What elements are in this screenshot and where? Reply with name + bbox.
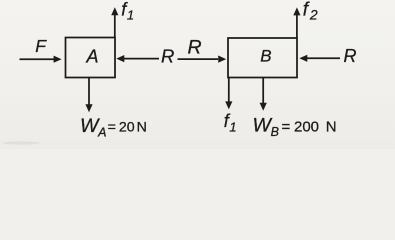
arrowhead R into A bbox=[116, 55, 124, 62]
svg-text:B: B bbox=[260, 47, 271, 66]
arrowhead WA down bbox=[85, 104, 92, 112]
svg-text:N: N bbox=[137, 120, 147, 136]
svg-text:=: = bbox=[108, 120, 116, 136]
arrowhead f1 up bbox=[111, 7, 118, 15]
wire: force R line into B left bbox=[178, 58, 219, 60]
arrowhead f2 up bbox=[293, 7, 300, 15]
svg-text:200: 200 bbox=[294, 118, 319, 135]
svg-text:20: 20 bbox=[119, 120, 135, 136]
arrowhead F bbox=[54, 56, 62, 63]
wire: force R line into B right bbox=[307, 57, 341, 59]
svg-text:A: A bbox=[86, 47, 99, 67]
svg-text:R: R bbox=[344, 46, 357, 66]
wire: force R line into A right bbox=[124, 58, 160, 60]
svg-text:F: F bbox=[35, 36, 47, 56]
arrowhead WB down bbox=[260, 103, 267, 111]
wire: weight WB down from B bbox=[262, 78, 264, 104]
scan smudge bottom-left bbox=[2, 141, 40, 144]
wire: force F line into A bbox=[20, 58, 55, 60]
svg-text:N: N bbox=[326, 118, 337, 135]
block A bbox=[66, 38, 116, 78]
arrowhead f1 down bbox=[225, 101, 232, 109]
arrowhead R into B left bbox=[218, 56, 226, 63]
svg-text:R: R bbox=[188, 37, 202, 59]
svg-text:=: = bbox=[282, 118, 291, 135]
arrowhead R into B right bbox=[299, 55, 307, 62]
block B bbox=[228, 38, 297, 78]
wire: force f1 up from A bbox=[114, 15, 116, 38]
svg-text:R: R bbox=[161, 46, 174, 67]
wire: force f1 down from B bbox=[228, 78, 230, 102]
wire: weight WA down from A bbox=[88, 78, 90, 105]
wire: force f2 up from B bbox=[296, 15, 298, 38]
